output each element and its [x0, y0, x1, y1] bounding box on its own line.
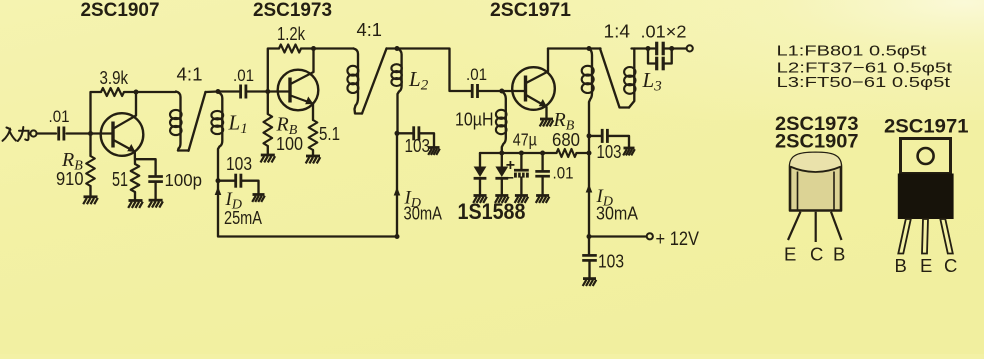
svg-text:100: 100 — [276, 133, 303, 154]
node collector Q1 — [134, 90, 139, 95]
ground 103 stage1 — [253, 193, 265, 196]
package TO-92 body — [790, 153, 841, 211]
svg-text:680: 680 — [552, 129, 580, 150]
svg-text:L3:FT50−61 0.5φ5t: L3:FT50−61 0.5φ5t — [777, 74, 952, 91]
transformer T2 4:1 primary coil — [354, 49, 363, 114]
svg-text:1:4: 1:4 — [604, 21, 631, 41]
ground under RB910 — [84, 195, 98, 198]
wire: T1 secondary top run — [206, 90, 240, 93]
transformer T3 1:4 primary coil — [589, 49, 592, 237]
svg-text:B: B — [895, 255, 907, 276]
node L1 bottom / 103 — [216, 178, 221, 183]
diode D1 1S1588 — [479, 153, 481, 167]
transformer T1 4:1 primary coil — [176, 92, 181, 151]
node cap pair left — [646, 46, 651, 51]
capacitor .01 bias bus — [541, 153, 543, 170]
svg-text:910: 910 — [56, 168, 84, 189]
resistor 1.2k — [279, 45, 301, 53]
resistor RB 910 — [89, 134, 91, 157]
arrow ID stage1 — [215, 187, 222, 196]
capacitor 47u electrolytic — [520, 153, 522, 169]
node rail bottom stage3 — [587, 234, 592, 239]
ground emitter Q3 — [540, 118, 553, 121]
resistor 680 bias — [557, 149, 577, 157]
wire: collector Q3 to T3 — [548, 47, 601, 49]
capacitor 103 stage2 bypass — [412, 126, 415, 140]
package TO-220 hole — [918, 148, 934, 164]
svg-text:B: B — [833, 244, 845, 265]
resistor 3.9k feedback — [101, 88, 124, 96]
ground rail 103 — [583, 277, 596, 280]
label input nyuryoku drawn — [3, 127, 29, 141]
svg-text:.01: .01 — [553, 164, 574, 183]
svg-text:.01: .01 — [233, 66, 254, 85]
svg-text:2SC1971: 2SC1971 — [490, 0, 571, 21]
capacitor 103 stage1 bypass — [234, 174, 237, 188]
svg-text:.01: .01 — [466, 65, 487, 84]
wire: T2 top run to L2 and corner — [387, 49, 471, 92]
node L2 top — [395, 46, 400, 51]
transistor Q1 2SC1907 — [101, 113, 144, 156]
svg-text:2SC1971: 2SC1971 — [884, 115, 969, 137]
svg-text:103: 103 — [226, 154, 252, 174]
diode D2 1S1588 — [501, 153, 503, 167]
wire: output top run — [632, 47, 656, 49]
svg-text:10µH: 10µH — [455, 110, 494, 130]
package TO-220 tab — [901, 139, 951, 174]
capacitor C1 .01 input coupling — [57, 127, 60, 141]
inductor L3 — [629, 49, 634, 108]
wire: input to C1 — [37, 132, 56, 134]
svg-text:25mA: 25mA — [224, 208, 262, 228]
wire: T2 diagonal — [362, 49, 387, 114]
capacitor 103 stage3 top — [601, 129, 604, 143]
node base Q1 — [88, 131, 93, 136]
svg-text:4:1: 4:1 — [177, 65, 203, 85]
capacitor C2 .01 interstage — [239, 85, 242, 99]
wire: emitter down + branch to 100p — [135, 152, 156, 175]
capacitor C3 .01 interstage — [471, 84, 474, 98]
wire: collector Q2 to T2 — [314, 47, 354, 49]
svg-text:1S1588: 1S1588 — [458, 199, 526, 224]
terminal output — [687, 45, 693, 51]
terminal +12V — [647, 233, 653, 239]
ground under 100p — [149, 199, 163, 202]
svg-text:4:1: 4:1 — [357, 20, 383, 40]
svg-text:2SC1973: 2SC1973 — [253, 0, 332, 21]
diode bias bus — [480, 152, 557, 154]
wire: T1 bottom link — [178, 149, 189, 151]
capacitor 103 rail decoupling — [588, 237, 590, 255]
inductor 10uH — [502, 91, 506, 153]
svg-text:C: C — [944, 255, 957, 276]
svg-text:103: 103 — [597, 141, 622, 162]
arrow ID stage3 — [586, 184, 593, 193]
ground under RB100 — [261, 154, 275, 157]
capacitor 100p — [148, 175, 163, 178]
wire: feedback riser — [91, 92, 102, 134]
wire: T1 diagonal — [189, 92, 206, 151]
node bus/47u — [519, 151, 524, 156]
svg-text:47µ: 47µ — [513, 129, 537, 149]
node base Q3 — [499, 89, 504, 94]
ground under 5.1 — [306, 155, 320, 158]
svg-text:100p: 100p — [165, 170, 203, 190]
package TO-220 legs — [898, 219, 911, 254]
wire: collector to T1 — [136, 91, 176, 93]
node cap pair right — [669, 46, 674, 51]
terminal input — [30, 130, 36, 136]
ground under 51 — [129, 199, 143, 202]
wire: +12V stub — [589, 235, 646, 237]
wire: L1 bottom to rail corner — [218, 181, 397, 237]
svg-text:C: C — [810, 244, 823, 265]
node rail stage2 — [395, 234, 400, 239]
inductor L1 — [217, 92, 223, 181]
resistor 51 emitter — [131, 164, 140, 192]
svg-text:.01×2: .01×2 — [641, 21, 687, 41]
arrow ID stage2 — [394, 187, 401, 196]
inductor L2 — [397, 49, 402, 134]
resistor RB 100 — [267, 92, 269, 115]
svg-text:2SC1907: 2SC1907 — [81, 0, 160, 21]
package TO-92 legs — [788, 212, 842, 242]
transistor Q2 2SC1973 — [278, 70, 319, 111]
svg-text:3.9k: 3.9k — [100, 68, 129, 88]
wire: C1 to base node — [67, 132, 113, 134]
resistor 5.1 emitter — [312, 104, 314, 120]
node L1 top — [216, 89, 221, 94]
wire: 1.2k riser — [268, 49, 279, 92]
node L2 bottom / 103 — [395, 131, 400, 136]
svg-text:.01: .01 — [49, 107, 70, 126]
node bus/10uH — [499, 151, 504, 156]
svg-text:+ 12V: + 12V — [656, 229, 700, 250]
wire: T3 diagonal — [600, 49, 629, 108]
capacitor .01 x2 output pair — [655, 42, 658, 56]
svg-text:5.1: 5.1 — [319, 124, 340, 144]
node base Q2 — [265, 89, 270, 94]
ground 103 stage2 — [429, 146, 440, 149]
node 680/rail — [587, 151, 592, 156]
svg-text:E: E — [920, 255, 932, 276]
wire: L2 bottom to rail — [396, 133, 398, 236]
svg-text:51: 51 — [112, 168, 128, 191]
package TO-220 body — [898, 174, 954, 220]
node T3 primary top — [587, 46, 592, 51]
node rail/103 stage3 — [587, 133, 592, 138]
svg-text:E: E — [784, 244, 796, 265]
svg-text:30mA: 30mA — [596, 203, 639, 224]
svg-text:L1:FB801 0.5φ5t: L1:FB801 0.5φ5t — [777, 42, 928, 59]
node bus/.01 — [540, 151, 545, 156]
node collector Q2 — [311, 46, 316, 51]
svg-text:103: 103 — [405, 136, 431, 156]
transistor Q3 2SC1971 — [512, 67, 555, 110]
svg-text:30mA: 30mA — [404, 203, 443, 223]
svg-text:1.2k: 1.2k — [277, 24, 306, 44]
svg-text:103: 103 — [598, 251, 624, 272]
ground 103 stage3 top — [624, 147, 635, 150]
svg-text:2SC1907: 2SC1907 — [775, 130, 859, 152]
svg-text:−: − — [506, 170, 514, 186]
